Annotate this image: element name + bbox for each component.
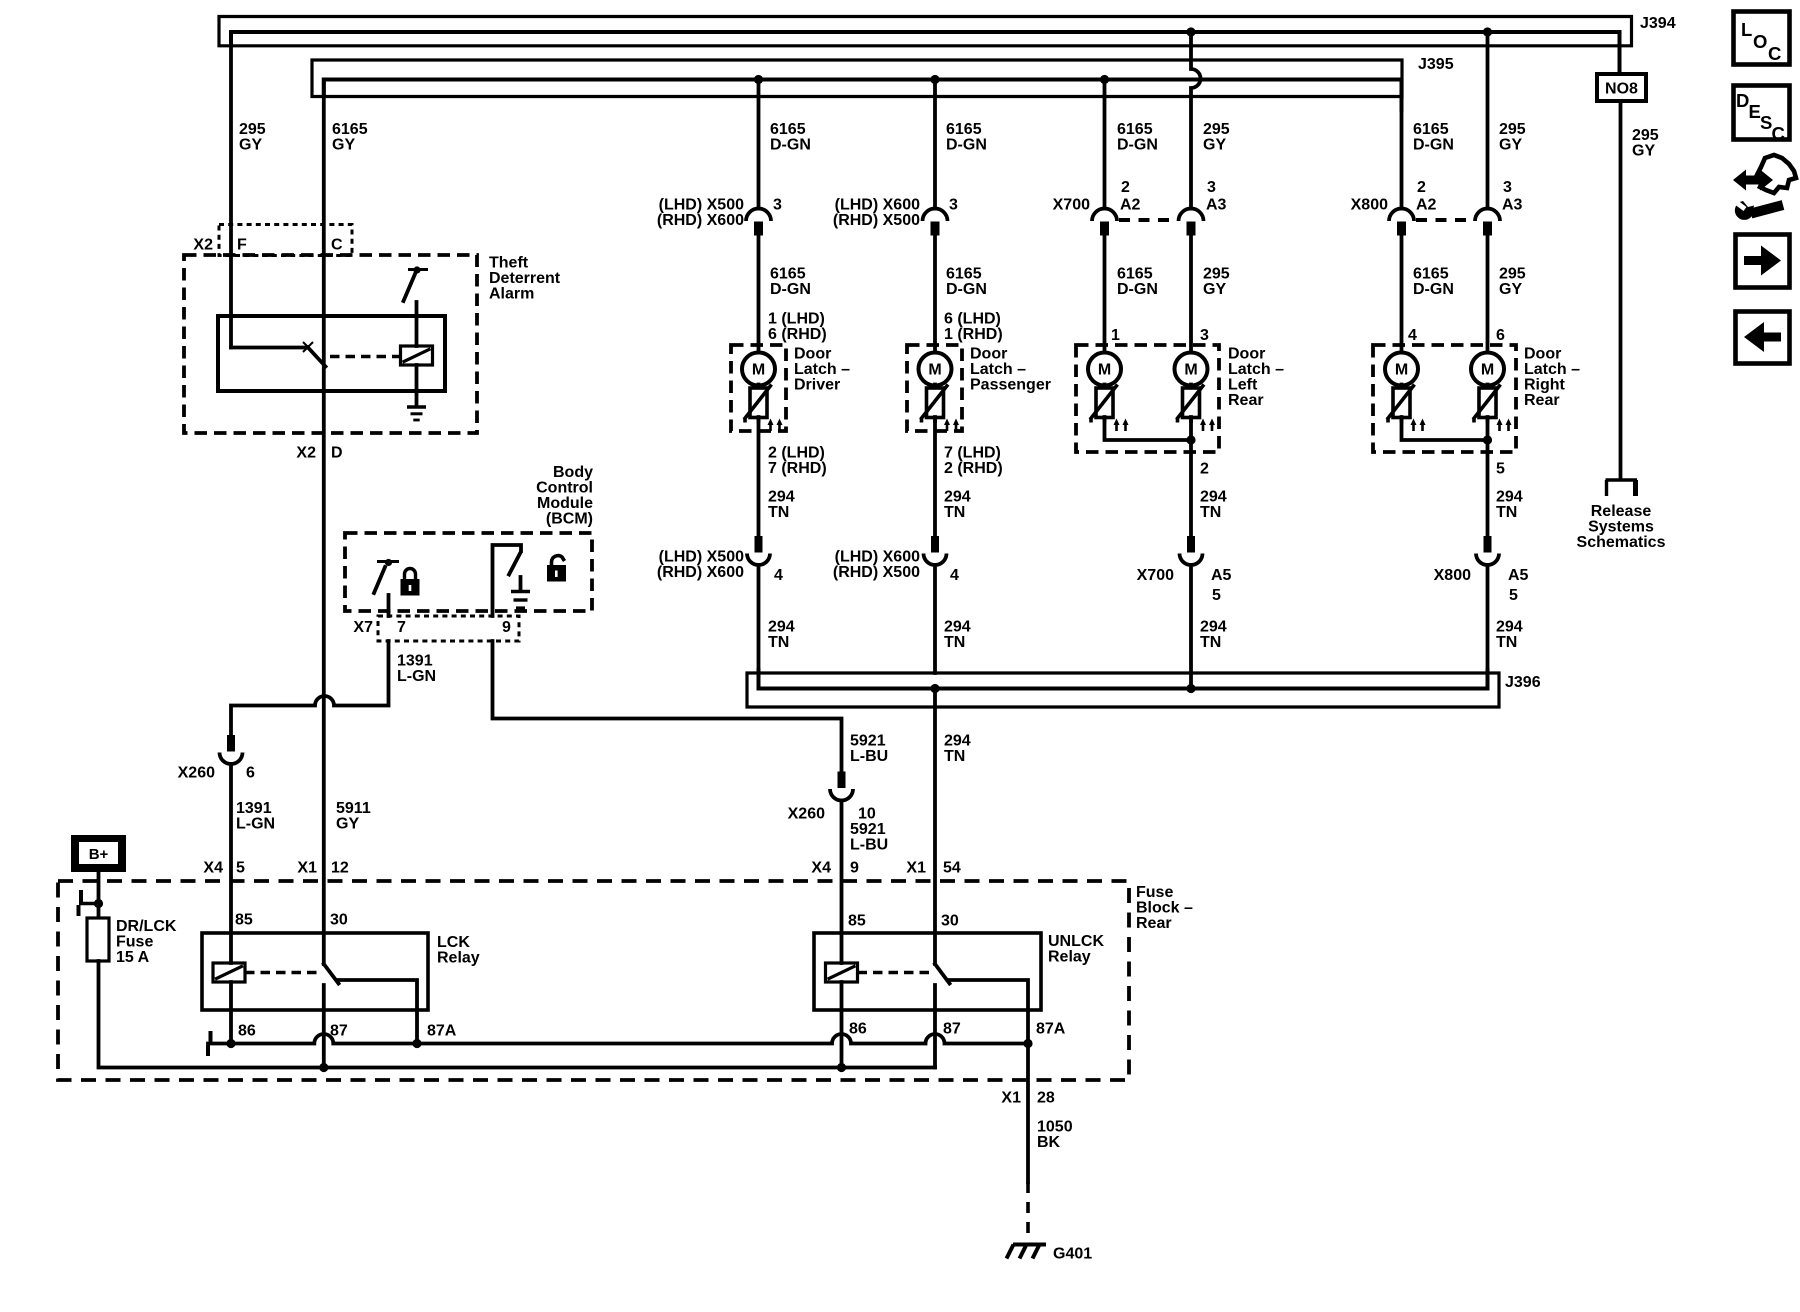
wire 6165 D-GN to driver latch — [759, 232, 827, 353]
svg-text:A5: A5 — [1508, 567, 1529, 584]
svg-text:Relay: Relay — [437, 950, 480, 967]
label 5911 GY — [336, 800, 371, 833]
svg-text:(LHD) X600: (LHD) X600 — [835, 197, 920, 214]
ptc driver latch — [744, 385, 783, 432]
svg-text:D-GN: D-GN — [946, 137, 987, 154]
theft alarm inner module — [218, 316, 445, 391]
switch LCK contacts — [324, 964, 417, 1010]
svg-text:Right: Right — [1524, 377, 1566, 394]
svg-text:1: 1 — [1111, 327, 1120, 344]
wire right rear latch common link — [1402, 417, 1488, 440]
svg-text:D: D — [1736, 90, 1749, 111]
padlock closed icon — [401, 569, 420, 596]
wire 295 GY to Release Systems — [1621, 101, 1659, 478]
svg-text:X4: X4 — [811, 860, 831, 877]
svg-text:87A: 87A — [1036, 1021, 1066, 1038]
wire 295 GY from J394 to theft alarm pin F — [231, 32, 266, 348]
svg-text:Fuse: Fuse — [116, 934, 153, 951]
theft deterrent alarm box — [184, 255, 561, 434]
svg-text:3: 3 — [1207, 179, 1216, 196]
wire UNLCK 87A lead — [1026, 1010, 1030, 1044]
svg-text:294: 294 — [1200, 619, 1227, 636]
svg-text:6165: 6165 — [946, 121, 982, 138]
wire 294 TN right rear out — [1488, 417, 1523, 537]
svg-text:295: 295 — [1203, 266, 1230, 283]
svg-text:6: 6 — [1496, 327, 1505, 344]
bus J396 housing — [747, 673, 1541, 707]
svg-text:87A: 87A — [427, 1023, 457, 1040]
svg-text:X260: X260 — [788, 806, 825, 823]
wire B+ to fuse — [97, 872, 101, 918]
icon back arrow box — [1736, 312, 1790, 364]
connector X260 pin 10 — [788, 772, 876, 823]
svg-text:(RHD) X600: (RHD) X600 — [657, 212, 744, 229]
svg-text:7: 7 — [397, 619, 406, 636]
motor right rear unlock — [1471, 353, 1504, 386]
svg-text:Module: Module — [537, 495, 593, 512]
svg-text:L: L — [1741, 19, 1752, 40]
wire UNLCK coil lead top — [840, 933, 844, 963]
svg-text:294: 294 — [1200, 489, 1227, 506]
svg-text:Control: Control — [536, 480, 593, 497]
node J396 left-rear tap — [1186, 684, 1195, 693]
wire LCK 86 lead — [229, 982, 233, 1044]
svg-text:Door: Door — [1524, 346, 1561, 363]
wire 6165 D-GN to right rear latch lock motor — [1402, 232, 1454, 353]
svg-text:TN: TN — [944, 504, 965, 521]
svg-text:X4: X4 — [203, 860, 223, 877]
relay coil LCK — [213, 963, 245, 982]
wire 295 GY left rear feed — [1191, 32, 1230, 209]
pin X1-54 label — [906, 860, 960, 877]
wire 294 TN left rear to J396 — [1191, 565, 1227, 689]
svg-text:D-GN: D-GN — [1117, 137, 1158, 154]
node LCK 87A junction — [412, 1039, 421, 1048]
svg-text:G401: G401 — [1053, 1246, 1092, 1263]
svg-text:Release: Release — [1591, 503, 1652, 520]
ground BCM internal — [511, 577, 530, 608]
connector NO8 — [1597, 73, 1646, 101]
svg-text:4: 4 — [1408, 327, 1417, 344]
node LCK 86 junction — [226, 1039, 235, 1048]
wire 295 GY right rear feed — [1488, 32, 1526, 209]
svg-text:A5: A5 — [1211, 567, 1232, 584]
connector X700 pin A3 — [1179, 197, 1227, 236]
motor left rear unlock — [1175, 353, 1208, 386]
svg-text:15 A: 15 A — [116, 949, 150, 966]
svg-text:5: 5 — [1509, 587, 1518, 604]
wire left rear latch common link — [1105, 417, 1192, 440]
svg-text:A2: A2 — [1120, 197, 1141, 214]
svg-text:TN: TN — [1200, 504, 1221, 521]
pin X4-5 label — [203, 860, 245, 877]
svg-text:5: 5 — [1212, 587, 1221, 604]
node J395 driver tap — [754, 75, 763, 84]
svg-text:9: 9 — [502, 619, 511, 636]
svg-text:2 (RHD): 2 (RHD) — [944, 460, 1003, 477]
connector X260 pin 6 — [178, 735, 255, 782]
svg-text:X260: X260 — [178, 765, 215, 782]
svg-text:30: 30 — [330, 912, 348, 929]
connector X500/X600 driver bottom — [657, 536, 770, 581]
svg-text:6: 6 — [246, 765, 255, 782]
motor door latch driver — [742, 353, 775, 386]
svg-text:GY: GY — [336, 816, 359, 833]
svg-text:(RHD) X600: (RHD) X600 — [657, 564, 744, 581]
connector X700 pin A2 — [1053, 197, 1141, 236]
connector X500/X600 driver top — [657, 197, 771, 236]
svg-text:1391: 1391 — [397, 653, 433, 670]
wire 294 TN passenger latch out — [935, 417, 1003, 537]
svg-text:86: 86 — [849, 1021, 867, 1038]
pin X2-D label — [296, 445, 342, 462]
wire 1391 L-GN to fuse block — [231, 764, 275, 933]
svg-text:UNLCK: UNLCK — [1048, 933, 1104, 950]
svg-text:GY: GY — [239, 137, 262, 154]
svg-text:C: C — [1772, 123, 1785, 144]
dashed link UNLCK coil to contacts — [858, 971, 931, 975]
wire 5921 L-BU from BCM pin 9 — [493, 641, 889, 776]
svg-text:1 (LHD): 1 (LHD) — [768, 311, 825, 328]
svg-text:Door: Door — [970, 346, 1007, 363]
connector X800 pin A2 — [1351, 197, 1437, 236]
svg-text:C: C — [331, 237, 343, 254]
wire 87A bus (line A) — [208, 1034, 1028, 1044]
svg-text:X1: X1 — [297, 860, 317, 877]
svg-text:X7: X7 — [353, 619, 373, 636]
svg-text:Left: Left — [1228, 377, 1258, 394]
wire 6165 D-GN right rear feed — [1402, 80, 1454, 209]
svg-text:(LHD) X500: (LHD) X500 — [659, 197, 744, 214]
motor door latch passenger — [919, 353, 952, 386]
label Body Control Module (BCM) — [536, 464, 593, 528]
battery feed B+ — [71, 835, 126, 872]
connector X700 pin A5 — [1137, 536, 1232, 604]
motor left rear lock — [1088, 353, 1121, 386]
svg-text:Body: Body — [553, 464, 593, 481]
node J395 left-rear tap — [1100, 75, 1109, 84]
connector X7 strip — [353, 616, 519, 641]
svg-text:294: 294 — [1496, 489, 1523, 506]
svg-text:6165: 6165 — [1413, 266, 1449, 283]
wire 295 GY to left rear latch unlock motor — [1191, 232, 1230, 353]
svg-text:D: D — [331, 445, 343, 462]
svg-text:X2: X2 — [193, 237, 213, 254]
svg-text:J396: J396 — [1505, 674, 1541, 691]
svg-text:3: 3 — [1503, 179, 1512, 196]
wire 295 GY to right rear latch unlock motor — [1488, 232, 1526, 353]
svg-text:Passenger: Passenger — [970, 377, 1051, 394]
wire 6165 D-GN driver feed — [759, 80, 811, 209]
svg-text:85: 85 — [848, 913, 866, 930]
svg-text:10: 10 — [858, 806, 876, 823]
svg-text:Driver: Driver — [794, 377, 840, 394]
svg-text:X1: X1 — [1001, 1090, 1021, 1107]
svg-text:295: 295 — [1203, 121, 1230, 138]
svg-text:L-GN: L-GN — [397, 668, 436, 685]
svg-text:X2: X2 — [296, 445, 316, 462]
wire 294 TN driver to J396 — [759, 565, 795, 673]
svg-text:D-GN: D-GN — [770, 281, 811, 298]
svg-text:L-GN: L-GN — [236, 816, 275, 833]
svg-text:Latch –: Latch – — [1524, 361, 1580, 378]
switch alarm trigger — [404, 266, 429, 301]
svg-text:Latch –: Latch – — [1228, 361, 1284, 378]
fuse block rear box — [58, 881, 1193, 1080]
svg-text:2: 2 — [1121, 179, 1130, 196]
splice clip at line A left end — [208, 1031, 211, 1056]
svg-text:B+: B+ — [89, 846, 109, 863]
svg-text:Block –: Block – — [1136, 900, 1193, 917]
wire 5921 L-BU to fuse block — [842, 801, 889, 934]
svg-text:A2: A2 — [1416, 197, 1437, 214]
ptc right rear unlock — [1473, 385, 1512, 432]
icon DESC box — [1734, 86, 1790, 145]
bus J394 housing — [219, 15, 1676, 46]
svg-text:Door: Door — [794, 346, 831, 363]
svg-text:GY: GY — [1499, 137, 1522, 154]
ptc left rear lock — [1090, 385, 1129, 432]
svg-text:(RHD) X500: (RHD) X500 — [833, 212, 920, 229]
svg-text:6165: 6165 — [1117, 266, 1153, 283]
svg-text:X1: X1 — [906, 860, 926, 877]
dashed link alarm switch to coil — [330, 355, 401, 359]
svg-text:54: 54 — [943, 860, 961, 877]
dashed link X800 A2-A3 — [1416, 218, 1474, 222]
svg-text:2: 2 — [1200, 461, 1209, 478]
wire B+ bus (line B) — [99, 961, 936, 1068]
svg-text:Rear: Rear — [1524, 392, 1560, 409]
svg-text:295: 295 — [1632, 127, 1659, 144]
connector X800 pin A5 — [1434, 536, 1529, 604]
ptc left rear unlock — [1177, 385, 1216, 432]
svg-text:Rear: Rear — [1228, 392, 1264, 409]
wire alarm coil to ground — [415, 365, 419, 405]
svg-text:Deterrent: Deterrent — [489, 270, 561, 287]
svg-text:295: 295 — [1499, 121, 1526, 138]
node UNLCK 87A junction — [1023, 1039, 1032, 1048]
svg-text:Fuse: Fuse — [1136, 884, 1173, 901]
bus J395 housing — [312, 56, 1454, 97]
svg-text:BK: BK — [1037, 1134, 1061, 1151]
wire 1050 BK dashed segment — [1026, 1182, 1030, 1242]
svg-text:J394: J394 — [1640, 15, 1676, 32]
svg-text:A3: A3 — [1206, 197, 1227, 214]
svg-text:F: F — [237, 237, 247, 254]
svg-text:D-GN: D-GN — [770, 137, 811, 154]
svg-text:D-GN: D-GN — [1117, 281, 1158, 298]
wire J394 inner conductor (295 GY bus) — [231, 32, 1620, 73]
svg-text:Door: Door — [1228, 346, 1265, 363]
wire 294 TN right rear to J396 — [1488, 565, 1523, 689]
svg-text:7 (RHD): 7 (RHD) — [768, 460, 827, 477]
switch BCM unlock command — [493, 545, 522, 616]
svg-text:(BCM): (BCM) — [546, 511, 593, 528]
svg-text:X800: X800 — [1351, 197, 1388, 214]
svg-text:(RHD) X500: (RHD) X500 — [833, 564, 920, 581]
svg-text:O: O — [1753, 31, 1767, 52]
svg-text:7 (LHD): 7 (LHD) — [944, 445, 1001, 462]
wire 6165 D-GN to left rear latch lock motor — [1105, 232, 1158, 353]
svg-text:GY: GY — [1499, 281, 1522, 298]
svg-text:294: 294 — [944, 619, 971, 636]
svg-text:12: 12 — [331, 860, 349, 877]
svg-text:DR/LCK: DR/LCK — [116, 918, 177, 935]
svg-text:1391: 1391 — [236, 800, 272, 817]
wire 294 TN passenger to J396 — [935, 565, 971, 673]
off-page reference Release Systems Schematics — [1577, 480, 1666, 551]
icon LOC box — [1734, 12, 1790, 65]
svg-text:5921: 5921 — [850, 733, 886, 750]
svg-text:5921: 5921 — [850, 821, 886, 838]
node B+ tap — [94, 899, 103, 908]
door latch right rear box — [1373, 345, 1580, 452]
wire J396 inner conductor (294 TN bus) — [759, 670, 1488, 689]
svg-text:3: 3 — [773, 197, 782, 214]
relay LCK box — [202, 933, 480, 1010]
ground alarm internal — [407, 407, 426, 420]
wire UNLCK 86 lead — [840, 982, 844, 1068]
door latch driver box — [731, 345, 850, 431]
svg-text:85: 85 — [235, 912, 253, 929]
svg-text:TN: TN — [1200, 634, 1221, 651]
dashed link LCK coil to contacts — [245, 971, 318, 975]
svg-text:L-BU: L-BU — [850, 837, 888, 854]
svg-text:1 (RHD): 1 (RHD) — [944, 326, 1003, 343]
relay coil UNLCK — [826, 963, 858, 982]
svg-text:5: 5 — [1496, 461, 1505, 478]
svg-text:TN: TN — [944, 748, 965, 765]
pin X1-12 label — [297, 860, 348, 877]
wire alarm coil lead — [415, 302, 419, 346]
wire 294 TN left rear out — [1191, 417, 1227, 537]
svg-text:294: 294 — [768, 489, 795, 506]
svg-text:Rear: Rear — [1136, 915, 1172, 932]
svg-text:TN: TN — [768, 504, 789, 521]
svg-text:295: 295 — [239, 121, 266, 138]
wire LCK coil lead top — [229, 933, 233, 963]
svg-text:Alarm: Alarm — [489, 286, 534, 303]
svg-text:87: 87 — [943, 1021, 961, 1038]
svg-text:LCK: LCK — [437, 934, 470, 951]
svg-text:4: 4 — [950, 567, 959, 584]
dashed link X700 A2-A3 — [1119, 218, 1177, 222]
svg-text:9: 9 — [850, 860, 859, 877]
svg-text:TN: TN — [1496, 634, 1517, 651]
node left rear latch common — [1186, 435, 1195, 444]
svg-text:294: 294 — [1496, 619, 1523, 636]
ground G401 — [1007, 1245, 1093, 1263]
wire J395 inner conductor (6165 D-GN bus) — [324, 80, 1402, 111]
relay coil theft alarm — [401, 346, 433, 365]
wire alarm F branch to switch — [231, 346, 308, 350]
svg-text:Schematics: Schematics — [1577, 534, 1666, 551]
icon schematic navigation (arrows and wrench) — [1733, 155, 1796, 220]
pin X4-9 label — [811, 860, 859, 877]
connector X600/X500 passenger bottom — [833, 536, 947, 581]
switch BCM lock command — [374, 559, 399, 593]
padlock open icon — [547, 556, 566, 582]
svg-text:Latch –: Latch – — [970, 361, 1026, 378]
splice clip at B+ feed — [79, 890, 99, 916]
wire 294 TN from J396 to UNLCK relay — [935, 689, 971, 965]
svg-text:GY: GY — [332, 137, 355, 154]
wire 6165 D-GN passenger feed — [935, 80, 987, 209]
wire 6165 D-GN to passenger latch — [935, 232, 1003, 353]
body control module box — [345, 533, 592, 611]
relay UNLCK box — [814, 933, 1104, 1010]
svg-text:Theft: Theft — [489, 255, 529, 272]
connector X800 pin A3 — [1475, 197, 1523, 236]
svg-text:6165: 6165 — [1413, 121, 1449, 138]
node J394-right-rear tap — [1483, 27, 1492, 36]
ptc right rear lock — [1387, 385, 1426, 432]
svg-text:294: 294 — [768, 619, 795, 636]
svg-text:GY: GY — [1632, 143, 1655, 160]
node J396 passenger tap — [930, 684, 939, 693]
svg-text:294: 294 — [944, 733, 971, 750]
svg-text:E: E — [1749, 101, 1761, 122]
node J395 passenger tap — [930, 75, 939, 84]
wire LCK 87 lead — [322, 985, 326, 1068]
svg-text:294: 294 — [944, 489, 971, 506]
svg-text:S: S — [1760, 112, 1772, 133]
svg-text:6 (RHD): 6 (RHD) — [768, 326, 827, 343]
svg-text:3: 3 — [949, 197, 958, 214]
svg-text:6165: 6165 — [332, 121, 368, 138]
svg-text:TN: TN — [768, 634, 789, 651]
ptc passenger latch — [921, 385, 960, 432]
wire 294 TN driver latch out — [759, 417, 827, 537]
svg-text:86: 86 — [238, 1023, 256, 1040]
svg-text:D-GN: D-GN — [1413, 137, 1454, 154]
switch UNLCK contacts — [935, 964, 1028, 1010]
svg-text:NO8: NO8 — [1605, 81, 1638, 98]
wire 1391 L-GN from BCM to X260 — [231, 641, 436, 735]
svg-text:TN: TN — [1496, 504, 1517, 521]
svg-text:2: 2 — [1417, 179, 1426, 196]
svg-text:(LHD) X500: (LHD) X500 — [659, 549, 744, 566]
svg-text:D-GN: D-GN — [946, 281, 987, 298]
svg-text:5911: 5911 — [336, 800, 371, 817]
svg-text:X700: X700 — [1137, 567, 1174, 584]
svg-text:A3: A3 — [1502, 197, 1523, 214]
wire LCK 87A lead — [415, 1010, 419, 1044]
svg-text:X800: X800 — [1434, 567, 1471, 584]
svg-text:2 (LHD): 2 (LHD) — [768, 445, 825, 462]
svg-text:6165: 6165 — [946, 266, 982, 283]
svg-text:C: C — [1768, 43, 1781, 64]
wire BCM pin 7 lead — [387, 595, 391, 616]
svg-text:GY: GY — [1203, 281, 1226, 298]
icon forward arrow box — [1736, 235, 1790, 288]
wire 6165 GY from J395 through pin C to LCK relay 30 — [324, 80, 368, 965]
svg-text:6165: 6165 — [1117, 121, 1153, 138]
node UNLCK 86 junction — [837, 1063, 846, 1072]
svg-text:6165: 6165 — [770, 266, 806, 283]
fuse DR/LCK 15 A — [87, 918, 177, 966]
svg-text:X700: X700 — [1053, 197, 1090, 214]
svg-text:4: 4 — [774, 567, 783, 584]
wire 1050 BK to ground — [1001, 1044, 1072, 1183]
motor right rear lock — [1385, 353, 1418, 386]
switch alarm relay contact — [303, 342, 326, 367]
node right rear latch common — [1483, 435, 1492, 444]
svg-text:(LHD) X600: (LHD) X600 — [835, 549, 920, 566]
svg-text:6 (LHD): 6 (LHD) — [944, 311, 1001, 328]
svg-text:Systems: Systems — [1588, 519, 1654, 536]
svg-text:TN: TN — [944, 634, 965, 651]
